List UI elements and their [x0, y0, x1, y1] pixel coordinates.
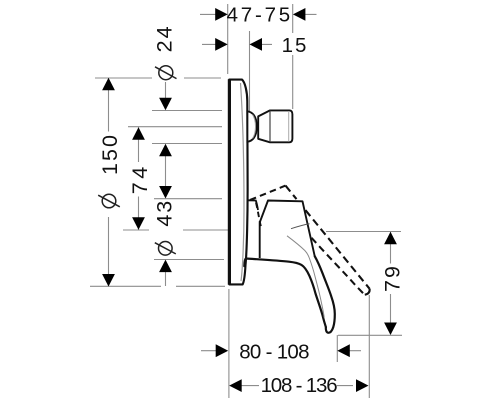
- svg-text:15: 15: [282, 34, 309, 57]
- dashed lever long top edge: [286, 186, 370, 289]
- arrow left 108-136: [229, 379, 242, 392]
- knob cup body: [258, 110, 292, 142]
- arrow down 79 bottom: [384, 323, 397, 336]
- label O24 diameter symbol: [155, 66, 177, 80]
- dim line 108-136 y385.6: [241, 385, 353, 387]
- svg-text:150: 150: [98, 133, 122, 175]
- dim line 74 x138.5: [138, 127, 140, 229]
- extension line knob end x292.7: [292, 4, 294, 109]
- centerline axis y126.7: [128, 126, 222, 128]
- dim line 15 tails y44.4: [202, 43, 272, 45]
- svg-text:79: 79: [381, 264, 405, 292]
- svg-text:47-75: 47-75: [227, 3, 293, 26]
- escutcheon base top and lever front edge: [244, 259, 326, 328]
- knob shade line: [288, 111, 290, 142]
- arrow down O43 top: [159, 186, 172, 199]
- plate left edge thick: [228, 79, 231, 284]
- arrow right 80-108: [216, 344, 229, 357]
- plate escutcheon outline: [229, 80, 247, 285]
- dashed lever lower edge: [312, 238, 365, 295]
- dashed lever left rising edge: [250, 186, 286, 200]
- arrow up O43 bottom: [159, 260, 172, 273]
- arrow left 80-108: [337, 344, 350, 357]
- extension line y198.7: [154, 198, 222, 200]
- dashed lever tip end: [365, 289, 370, 295]
- handle body trapezoid: [260, 201, 315, 259]
- arrow up O24 bottom: [159, 144, 172, 157]
- svg-text:43: 43: [153, 199, 177, 227]
- plate inner contour: [241, 83, 245, 281]
- arrow down O24 top: [159, 98, 172, 111]
- knob bulge inner curve: [253, 115, 256, 139]
- handle neck line: [248, 200, 258, 210]
- svg-text:74: 74: [128, 163, 152, 194]
- arrow right at wall 47-75: [215, 8, 228, 21]
- dim line 47-75 tails y14.4: [200, 13, 317, 15]
- svg-text:24: 24: [153, 24, 177, 52]
- extension line plate top y78: [95, 77, 221, 79]
- extension line lever tip y335.3: [338, 334, 402, 336]
- extension line x249.5: [249, 31, 251, 111]
- arrow down 74 bottom: [132, 217, 145, 230]
- arrow right 108-136: [356, 379, 369, 392]
- svg-text:108 - 136: 108 - 136: [261, 374, 338, 397]
- arrow left at knob end 47-75: [293, 8, 306, 21]
- arrow right 15: [215, 38, 228, 51]
- extension line wall x227.7 top: [227, 4, 229, 74]
- lever back edge and tip: [315, 256, 335, 333]
- inner curve upper: [291, 224, 310, 229]
- arrow up O150 top: [102, 78, 115, 91]
- inner curve lower: [287, 236, 324, 318]
- label O43 diameter symbol: [155, 242, 176, 256]
- extension line y259.5: [154, 259, 224, 261]
- extension line plate bottom y286.3: [90, 285, 225, 287]
- extension line knob top y110.5: [152, 110, 222, 112]
- arrow up 74 top: [132, 127, 145, 140]
- svg-text:80 - 108: 80 - 108: [239, 340, 309, 363]
- knob bulge: [247, 111, 256, 141]
- extension line x369.3 dashed tip: [368, 295, 370, 398]
- arrow down O150 bottom: [102, 274, 115, 287]
- dim line 80-108 tails y350.7: [201, 350, 361, 352]
- arrow up 79 top: [384, 232, 397, 245]
- dim line O24/O43 x165.5: [165, 82, 167, 286]
- handle white fill region: [246, 254, 334, 333]
- knob step line: [269, 111, 271, 143]
- label O150 diameter symbol: [98, 194, 120, 208]
- extension line handle axis y230: [123, 230, 401, 232]
- arrow left 15: [250, 38, 263, 51]
- dim line 79 x390.5: [390, 232, 392, 323]
- dashed lever base edge near plate: [256, 203, 262, 230]
- extension line knob bottom y143.5: [152, 143, 222, 145]
- extension line x337.3 lever tip: [336, 335, 338, 362]
- dim line O150 x108.5: [108, 78, 110, 286]
- extension line x228.9 bottom: [228, 289, 230, 398]
